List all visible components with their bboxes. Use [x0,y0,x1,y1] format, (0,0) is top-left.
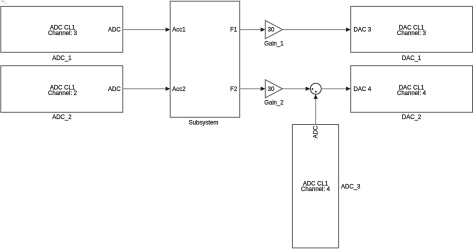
svg-text:Acc2: Acc2 [172,87,186,93]
svg-text:ADC: ADC [108,28,121,34]
svg-text:DAC 3: DAC 3 [354,28,372,34]
svg-text:F1: F1 [230,28,238,34]
svg-text:ADC_3: ADC_3 [341,185,361,191]
svg-text:Acc1: Acc1 [172,28,186,34]
svg-text:ADC_1: ADC_1 [52,56,72,62]
svg-text:ADC: ADC [313,125,319,138]
svg-text:Channel: 3: Channel: 3 [397,31,427,37]
svg-text:Channel: 3: Channel: 3 [48,31,78,37]
svg-text:Channel: 4: Channel: 4 [397,91,427,97]
svg-text:DAC_1: DAC_1 [402,56,422,62]
svg-text:Channel: 2: Channel: 2 [48,91,78,97]
svg-text:Subsystem: Subsystem [189,121,219,127]
svg-text:DAC 4: DAC 4 [354,87,372,93]
svg-text:Gain_1: Gain_1 [264,42,284,48]
svg-text:30: 30 [268,28,275,34]
svg-text:DAC_2: DAC_2 [402,115,422,121]
svg-text:Channel: 4: Channel: 4 [301,187,331,193]
svg-text:ADC_2: ADC_2 [52,115,72,121]
svg-text:Gain_2: Gain_2 [264,101,284,107]
svg-text:ADC: ADC [108,87,121,93]
svg-text:30: 30 [268,87,275,93]
svg-text:F2: F2 [230,87,238,93]
